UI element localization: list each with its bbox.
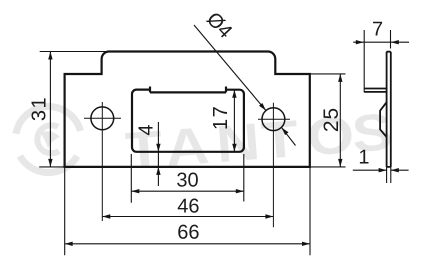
arrow 31 top: [48, 52, 52, 60]
hole left crosshair: [84, 102, 121, 221]
arrow 17 bottom: [232, 144, 236, 152]
hole right: [262, 108, 285, 131]
arrow 30 left: [131, 189, 139, 193]
side view strip: [386, 52, 390, 167]
svg-text:66: 66: [177, 222, 199, 244]
arrow 46 right: [265, 214, 273, 218]
dimension 4 line: [157, 122, 159, 186]
arrow 66 right: [302, 242, 310, 246]
svg-text:46: 46: [177, 195, 199, 217]
svg-text:7: 7: [372, 18, 383, 40]
arrow leader d4: [259, 103, 266, 111]
arrow 1 right: [391, 168, 399, 172]
arrow 17 top: [232, 90, 236, 98]
arrow 7 left: [356, 40, 364, 44]
dimension 25 lines: [310, 74, 346, 167]
dimension 66 lines: [65, 167, 310, 255]
leader diameter 4: [194, 25, 296, 146]
dimension 7 lines: [353, 30, 409, 92]
arrow 1 left: [379, 168, 387, 172]
arrow 31 bottom: [48, 159, 52, 167]
svg-text:17: 17: [210, 105, 232, 130]
svg-text:4: 4: [135, 124, 157, 135]
svg-text:31: 31: [28, 96, 50, 121]
arrow 30 right: [236, 189, 244, 193]
plate outline: [65, 52, 310, 167]
side view bump: [380, 102, 387, 137]
hole right crosshair: [258, 103, 290, 228]
dimension 31 lines: [39, 52, 107, 167]
hole left: [91, 107, 114, 130]
arrow 4 lower: [156, 167, 160, 175]
arrow 4 upper: [156, 144, 160, 152]
dimension 30 lines: [131, 154, 244, 203]
latch opening: [132, 87, 244, 152]
arrow 66 left: [65, 242, 73, 246]
arrow 25 top: [338, 74, 342, 82]
svg-text:1: 1: [358, 146, 369, 168]
arrow 7 right: [391, 40, 399, 44]
arrow leader d4 opposite: [282, 128, 289, 136]
arrow 25 bottom: [338, 159, 342, 167]
arrow 46 left: [102, 214, 110, 218]
svg-text:25: 25: [320, 107, 343, 132]
dimension 17 line: [233, 90, 235, 152]
watermark logo ring: [16, 106, 80, 172]
arrows: [48, 40, 399, 246]
svg-text:30: 30: [176, 169, 198, 191]
dimension 46 line: [102, 216, 273, 218]
side view flange: [364, 89, 387, 92]
dimension 1 lines: [353, 167, 409, 183]
